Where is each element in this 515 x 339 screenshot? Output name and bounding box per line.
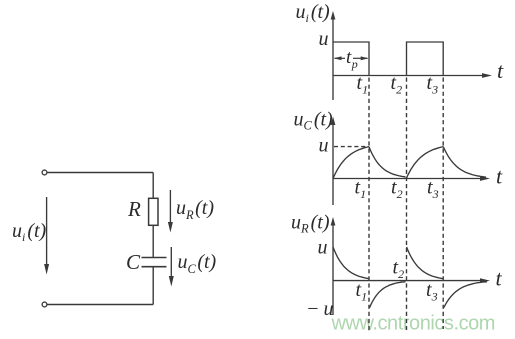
resistor R — [149, 198, 158, 225]
terminal bottom — [42, 302, 47, 307]
plot2 uC curve segment 3 (charge) — [406, 147, 443, 179]
svg-text:t1: t1 — [355, 177, 367, 202]
svg-text:C: C — [126, 250, 141, 274]
svg-text:− u: − u — [306, 298, 334, 320]
wire right lower — [152, 267, 154, 305]
svg-text:ui(t): ui(t) — [12, 220, 47, 244]
plot2 x-axis — [333, 176, 490, 181]
plot3 uR curve segment 4 — [444, 282, 487, 308]
plot3 x-axis — [333, 278, 490, 283]
svg-text:tp: tp — [346, 47, 358, 71]
terminal top — [42, 170, 47, 175]
plot3 uR curve segment 2 — [370, 282, 406, 308]
tp dimension arrow — [335, 57, 368, 59]
dashed line t2 — [406, 78, 408, 331]
plot2 uC curve segment 2 (discharge) — [369, 147, 406, 177]
plot3 uR curve segment 3 — [407, 247, 443, 279]
plot1 x-axis — [333, 73, 492, 78]
plot1 pulse 1 — [333, 42, 369, 76]
plot1 y-axis — [331, 11, 336, 100]
svg-text:uR(t): uR(t) — [176, 197, 214, 222]
plot2 y-axis — [331, 117, 336, 206]
capacitor C — [142, 258, 167, 267]
svg-text:t2: t2 — [391, 177, 403, 202]
arrow uR — [168, 190, 173, 233]
plot2 uC curve segment 1 (charge) — [333, 147, 369, 179]
dashed line t1 — [368, 78, 370, 332]
arrow ui direction — [44, 197, 49, 275]
svg-text:t2: t2 — [393, 257, 405, 282]
svg-text:u: u — [319, 28, 329, 50]
arrow uC — [169, 247, 174, 287]
svg-text:t1: t1 — [356, 279, 368, 304]
wire bottom — [47, 304, 153, 306]
svg-text:uR(t): uR(t) — [291, 212, 330, 236]
svg-text:R: R — [127, 197, 141, 221]
svg-text:t3: t3 — [426, 279, 438, 304]
wire top — [47, 172, 153, 174]
plot1 pulse 2 — [407, 42, 444, 76]
svg-text:u: u — [319, 135, 329, 157]
svg-text:t: t — [497, 58, 504, 83]
plot2 dashed u level — [334, 146, 368, 148]
svg-text:uC(t): uC(t) — [294, 109, 334, 133]
svg-text:t3: t3 — [427, 177, 439, 202]
svg-text:uC(t): uC(t) — [178, 251, 217, 276]
wire right upper — [152, 173, 154, 199]
svg-text:t: t — [496, 266, 503, 291]
svg-text:t: t — [496, 164, 503, 189]
svg-text:www.cntronics.com: www.cntronics.com — [331, 313, 496, 335]
dashed line t3 — [442, 78, 444, 330]
wire resistor-capacitor — [152, 225, 154, 257]
plot2 uC curve segment 4 (discharge) — [443, 147, 486, 177]
plot3 y-axis — [331, 217, 336, 315]
svg-text:ui(t): ui(t) — [296, 1, 331, 25]
svg-text:u: u — [318, 237, 328, 259]
plot3 uR curve segment 1 — [333, 247, 369, 279]
